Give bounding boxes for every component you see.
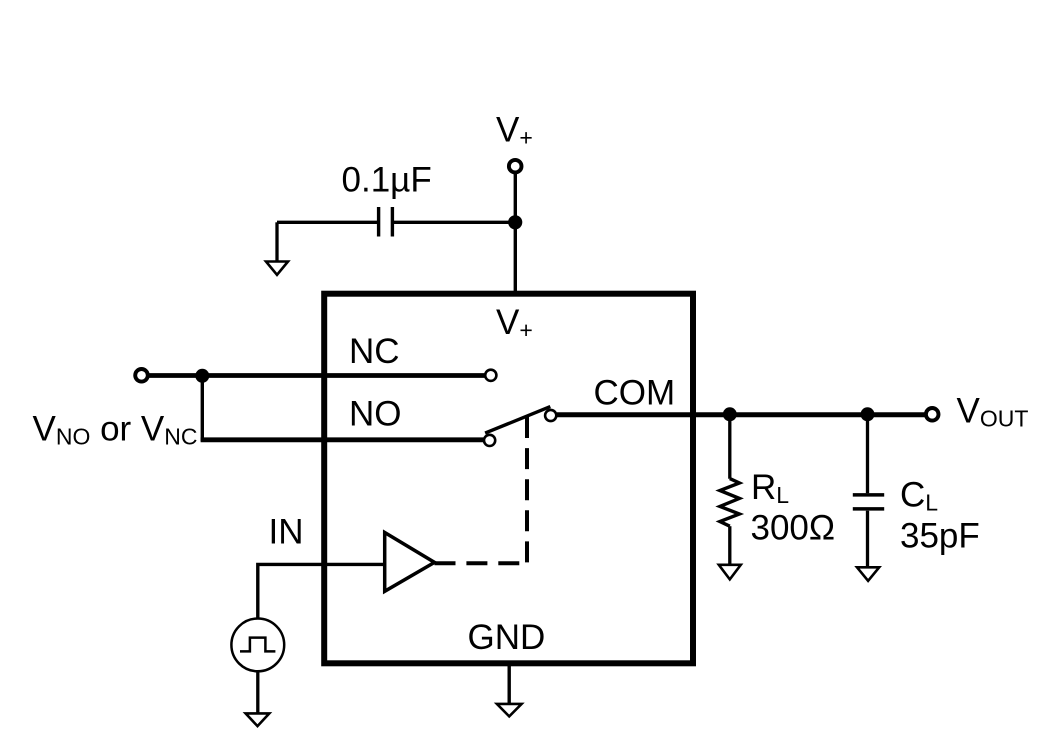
buffer driver triangle — [385, 533, 435, 592]
ground under CL — [857, 567, 879, 581]
wire RL bottom — [728, 526, 731, 565]
node junction RL dot — [723, 407, 737, 421]
wire GND pin — [508, 666, 511, 704]
wire pulse source to ground — [256, 671, 259, 713]
resistor RL zigzag — [720, 479, 740, 527]
wire bypass cap left segment — [277, 221, 377, 224]
wire V+ pin stem — [514, 174, 517, 291]
pulse source V2 circle — [231, 619, 284, 672]
node junction V+ dot — [508, 215, 522, 229]
wire IN to buffer — [258, 564, 383, 617]
svg-text:CL: CL — [900, 476, 938, 516]
pin circle NO — [484, 435, 495, 446]
svg-text:0.1µF: 0.1µF — [342, 160, 432, 199]
ground under bypass cap — [266, 262, 288, 275]
svg-text:300Ω: 300Ω — [751, 509, 836, 548]
pin circle COM — [545, 410, 556, 421]
svg-text:V+: V+ — [496, 111, 533, 151]
svg-text:NC: NC — [349, 332, 400, 371]
wire junction drop — [201, 376, 204, 441]
wire COM to VOUT — [557, 412, 925, 417]
svg-text:NO: NO — [349, 395, 402, 434]
svg-text:COM: COM — [594, 374, 676, 413]
wire NC — [148, 373, 486, 378]
pulse source waveform glyph — [240, 638, 275, 652]
wire CL top — [866, 414, 869, 493]
wire RL top — [728, 414, 731, 479]
dashed control line vertical — [525, 417, 529, 563]
svg-text:VNO or VNC: VNO or VNC — [33, 410, 198, 450]
ground under RL — [719, 565, 741, 580]
pin circle NC — [485, 370, 496, 381]
wire cap to ground drop — [275, 222, 278, 262]
terminal VOUT — [926, 408, 939, 421]
terminal NC left — [135, 369, 148, 382]
ground under pulse source — [246, 713, 270, 726]
ground under GND pin — [497, 704, 522, 717]
switch arm — [485, 407, 550, 434]
svg-text:V+: V+ — [496, 303, 533, 343]
dashed control line horizontal — [435, 561, 528, 565]
node junction CL dot — [861, 407, 875, 421]
svg-text:IN: IN — [269, 512, 304, 551]
wire NO — [201, 437, 485, 442]
wire CL bottom — [866, 511, 869, 568]
node junction NC/NO dot — [195, 369, 209, 383]
svg-text:VOUT: VOUT — [957, 392, 1029, 432]
capacitor CL plates — [853, 493, 884, 497]
device box U1 — [324, 294, 693, 664]
terminal V+ — [509, 160, 522, 173]
svg-text:35pF: 35pF — [900, 517, 980, 556]
wire bypass cap right segment — [394, 221, 516, 224]
svg-text:GND: GND — [468, 618, 546, 657]
capacitor C1 0.1uF plates — [377, 207, 380, 237]
svg-text:RL: RL — [751, 468, 789, 508]
